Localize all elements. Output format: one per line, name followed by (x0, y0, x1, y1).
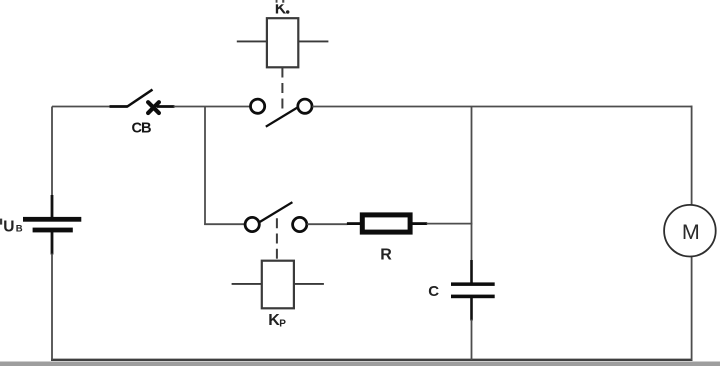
wire bottom rail (51, 359, 693, 361)
label Kp (268, 312, 286, 329)
contact Kp right circle (293, 217, 307, 231)
dashed link coil K* to contact (281, 68, 283, 110)
label K* (273, 0, 290, 18)
capacitor C plates (451, 282, 495, 298)
svg-text:R: R (380, 246, 392, 263)
svg-text:C: C (428, 283, 439, 300)
wire top rail segment C (312, 106, 692, 108)
relay coil K* rectangle (267, 18, 298, 67)
capacitor lead top (470, 260, 473, 283)
wire right rail lower (691, 257, 693, 361)
svg-text:CB: CB (132, 121, 151, 137)
capacitor lead bottom (470, 298, 473, 321)
breaker CB thick lead left (110, 105, 128, 108)
wire branch horizontal to contact (204, 223, 245, 225)
battery U_B (23, 217, 81, 233)
resistor R lead left (347, 222, 361, 225)
contact Kp left circle (245, 217, 259, 231)
breaker CB blade (127, 90, 153, 107)
resistor R body (362, 215, 410, 232)
relay coil K* lead right (298, 40, 328, 42)
dashed link contact to coil Kp (276, 218, 278, 260)
relay coil K* lead left (237, 40, 267, 42)
wire right rail upper (691, 106, 693, 206)
wire battery lead bottom (51, 232, 54, 255)
wire left rail upper (51, 107, 53, 197)
breaker CB X mark (148, 102, 159, 113)
bottom gray band (0, 362, 720, 366)
wire capacitor branch upper (471, 107, 473, 262)
label U_B (0, 218, 23, 235)
wire top rail segment A (52, 106, 111, 108)
relay coil Kp lead left (232, 283, 262, 285)
wire left rail lower (51, 254, 53, 361)
resistor R lead right (412, 222, 427, 225)
svg-text:B: B (16, 224, 23, 235)
relay coil Kp rectangle (262, 261, 294, 309)
relay coil Kp lead right (294, 283, 324, 285)
contact K* blade (266, 107, 299, 127)
wire resistor to junction (427, 223, 473, 225)
contact K* left circle (251, 99, 265, 113)
wire contact to resistor (307, 223, 348, 225)
contact Kp blade (260, 202, 293, 222)
svg-text:U: U (3, 218, 14, 235)
contact K* right circle (298, 99, 312, 113)
breaker CB thick lead right (157, 105, 175, 108)
wire top rail segment B (174, 106, 251, 108)
motor M circle (664, 205, 716, 257)
node branch vertical wire (204, 107, 206, 226)
svg-text:M: M (682, 220, 700, 244)
svg-text:P: P (279, 318, 286, 329)
wire battery lead top (51, 195, 54, 218)
wire capacitor branch lower (471, 320, 473, 361)
